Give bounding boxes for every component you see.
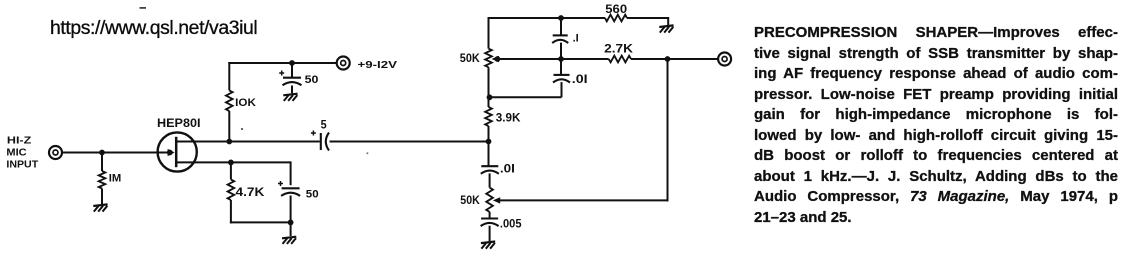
svg-text:5: 5 <box>321 118 327 132</box>
wire 4.7K to bottom rail <box>230 200 291 223</box>
svg-text:HI-Z: HI-Z <box>7 136 31 147</box>
label C4 value 5 <box>321 118 327 132</box>
wire 1M to ground <box>101 189 103 205</box>
svg-text:.0I: .0I <box>500 164 515 176</box>
node supply junction <box>289 60 295 66</box>
svg-text:+9-I2V: +9-I2V <box>358 60 398 71</box>
node wiper junction dot <box>495 56 501 62</box>
svg-text:.0I: .0I <box>572 74 588 86</box>
wire 10K stem bottom <box>228 111 230 142</box>
wire C4 to rail <box>330 141 489 143</box>
node source junction <box>228 160 234 166</box>
label R2 value 10K <box>235 97 256 109</box>
ground below source network <box>282 237 296 244</box>
label R5 value 50K <box>460 53 481 65</box>
label C3 plus <box>278 181 283 186</box>
wire C5 stem <box>560 18 562 35</box>
transistor Q1 channel bar <box>175 137 178 167</box>
ground below C2 <box>283 94 297 101</box>
wire bottom wiper horizontal <box>498 199 669 201</box>
transistor Q1 HEP801 label <box>157 116 201 130</box>
node main junction <box>486 139 492 145</box>
svg-text:2.7K: 2.7K <box>604 41 633 55</box>
wire Q1 source lead <box>176 161 231 163</box>
wire input to gate <box>62 152 169 154</box>
svg-text:INPUT: INPUT <box>6 159 38 170</box>
supply terminal +9-12V <box>337 57 350 70</box>
svg-text:50: 50 <box>306 188 319 200</box>
label R6 value 3.9K <box>496 110 521 124</box>
svg-text:50K: 50K <box>460 195 480 207</box>
svg-text:50: 50 <box>305 74 319 86</box>
wire output lead <box>668 58 719 60</box>
wire 1M stem top <box>101 153 103 172</box>
pot R8 wiper arrow <box>493 197 500 203</box>
label C7 value .01 <box>500 164 515 176</box>
node top junction .1 <box>558 15 564 21</box>
node mid junction <box>558 56 564 62</box>
wire top rail segment <box>488 17 490 49</box>
svg-text:560: 560 <box>605 2 627 16</box>
transistor Q1 body circle <box>158 132 197 171</box>
node output junction <box>665 56 671 62</box>
wire 4.7K stem top <box>230 162 232 179</box>
resistor R3 4.7K <box>228 180 235 201</box>
svg-text:.005: .005 <box>500 218 522 230</box>
label C4 plus <box>311 131 316 136</box>
resistor R4 560 <box>605 15 627 22</box>
wire 3.9K to main node <box>488 126 490 142</box>
capacitor C2 50uF bypass <box>283 78 302 86</box>
pot R5 wiper arrow <box>492 56 561 62</box>
resistor R7 2.7K <box>609 56 631 63</box>
svg-text:.I: .I <box>573 32 579 44</box>
wire rail 50K to 3.9K <box>488 67 490 107</box>
wire C7 to pot <box>489 173 491 187</box>
label C5 value .1 <box>573 32 579 44</box>
wire Q1 drain lead <box>176 141 229 143</box>
ground below .005 <box>481 242 495 249</box>
wire mid to 2.7K <box>561 58 609 60</box>
potentiometer R5 50K top <box>485 49 492 68</box>
resistor R1 1M <box>99 171 106 189</box>
wire C7 stem <box>488 142 490 167</box>
label C6 value .01 <box>572 74 588 86</box>
ground at 560 <box>659 25 673 32</box>
wire pot to C8 <box>489 212 491 219</box>
label C3 value 50 <box>306 188 319 200</box>
svg-text:MIC: MIC <box>6 148 26 159</box>
wire C6 bottom to rail <box>489 82 562 97</box>
label C8 value .005 <box>500 218 522 230</box>
svg-text:HEP80I: HEP80I <box>157 116 201 130</box>
capacitor C5 .1 <box>552 35 568 43</box>
label R3 value 4.7K <box>236 185 265 199</box>
wire 2.7K to output node <box>631 58 668 60</box>
wire C3 bottom stem <box>290 196 292 223</box>
svg-text:4.7K: 4.7K <box>236 185 265 199</box>
wire 560 lead left <box>561 17 605 19</box>
input terminal J1 <box>49 146 62 159</box>
caption text block <box>754 23 1118 228</box>
node rail junction 97 <box>487 94 493 100</box>
wire 560 to ground stub <box>627 17 668 25</box>
wire C8 to ground <box>489 226 491 242</box>
wire right vertical <box>667 59 669 201</box>
resistor R2 10K <box>226 90 233 111</box>
wire C5 to mid wire <box>560 43 562 59</box>
label R1 value 1M <box>109 173 122 185</box>
wire C2 stem <box>291 63 293 78</box>
ground below 1M <box>93 204 107 211</box>
node drain junction <box>226 139 232 145</box>
label R7 value 2.7K <box>604 41 633 55</box>
svg-text:50K: 50K <box>460 53 481 65</box>
wire top wire 560 left <box>488 17 562 19</box>
wire drain to C4 <box>229 141 319 143</box>
label R4 value 560 <box>605 2 627 16</box>
stray mark above url <box>140 7 147 9</box>
capacitor C4 5uF coupling <box>321 133 329 151</box>
wire source to C3 <box>231 161 291 185</box>
output terminal J2 <box>718 53 731 66</box>
capacitor C3 50uF source bypass <box>281 188 300 196</box>
wire 10K to supply rail <box>228 62 337 90</box>
transistor Q1 gate arrow <box>167 149 175 156</box>
node HI-Z MIC INPUT label <box>6 136 38 171</box>
capacitor C6 .01 <box>553 75 570 83</box>
label C2 plus <box>279 71 284 76</box>
label C2 value 50 <box>305 74 319 86</box>
svg-text:IOK: IOK <box>235 97 256 109</box>
svg-text:IM: IM <box>109 173 122 185</box>
potentiometer R8 50K bottom <box>486 188 493 212</box>
resistor R6 3.9K <box>485 107 492 126</box>
stray dot <box>241 128 369 154</box>
svg-text:3.9K: 3.9K <box>496 110 521 124</box>
capacitor C7 .01 low <box>481 166 499 174</box>
node bottom junction <box>288 220 294 226</box>
label supply +9-12V <box>358 60 398 71</box>
capacitor C8 .005 <box>481 219 499 227</box>
url watermark <box>50 18 257 40</box>
wire C6 stem <box>560 59 562 75</box>
node input junction <box>99 150 105 156</box>
label R8 value 50K <box>460 195 480 207</box>
wire bottom to ground <box>290 222 292 236</box>
wire C2 to ground <box>291 86 293 94</box>
